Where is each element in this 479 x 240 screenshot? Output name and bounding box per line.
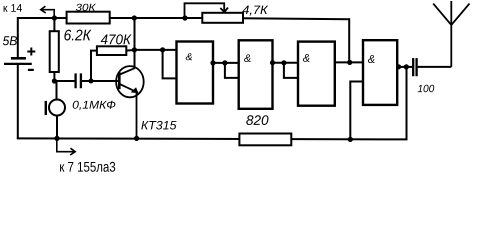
- node junction output cap branch: [404, 64, 409, 69]
- node junction bottom rail mic: [54, 136, 59, 141]
- wire antenna feed: [418, 66, 452, 68]
- node junction bottom rail emitter: [134, 136, 139, 141]
- gate U1.1 box: [177, 42, 214, 104]
- label 5V: [3, 36, 17, 45]
- label k 7 155la3: [60, 162, 115, 172]
- wire feedback 470K: [91, 50, 134, 81]
- wire 6.2K branch: [53, 18, 55, 81]
- potentiometer R4 wiper arrow: [185, 3, 229, 18]
- wire bottom rail: [17, 67, 407, 139]
- node junction gate1 input branch: [160, 47, 165, 52]
- wire base coupling: [54, 80, 118, 82]
- resistor R5 820: [239, 134, 291, 146]
- node junction collector feedback: [132, 47, 137, 52]
- resistor R1 30K: [67, 12, 110, 24]
- label 4.7K: [242, 6, 268, 16]
- battery GB1 5V plates: [4, 58, 32, 64]
- wire microphone branch: [56, 81, 59, 138]
- node junction pot rail: [182, 15, 187, 20]
- resistor R3 470K: [97, 46, 126, 55]
- label k 14: [4, 4, 22, 12]
- node junction bottom rail feedback: [348, 137, 353, 142]
- label 30K: [76, 4, 96, 11]
- label battery plus: [27, 48, 35, 56]
- node junction gate3 input branch: [281, 60, 286, 65]
- node junction gate1 output: [210, 60, 215, 65]
- capacitor C1 0.1uF: [76, 73, 81, 88]
- gate U1.2 box: [239, 40, 273, 109]
- resistor R2 6.2K: [50, 31, 59, 72]
- gate U1.4 box: [363, 40, 397, 105]
- antenna W1: [433, 1, 469, 67]
- label gate1 amp: [186, 53, 192, 60]
- node junction gate3 output: [347, 60, 352, 65]
- microphone BM1: [46, 100, 65, 116]
- wire gate1 output: [213, 63, 239, 78]
- capacitor C2 100: [413, 58, 416, 76]
- label KT315: [141, 121, 176, 130]
- wire gate1 input: [134, 50, 177, 79]
- wire collector line: [134, 18, 136, 68]
- wire gate4 output: [397, 66, 412, 68]
- gate U1.3 box: [298, 42, 335, 106]
- label battery minus: [28, 69, 34, 71]
- label 470K: [101, 34, 132, 44]
- wire gate4 lower input: [350, 82, 363, 140]
- potentiometer R4 4.7K body: [202, 13, 243, 23]
- wire gate3 output: [335, 18, 364, 62]
- node junction gate2 output: [270, 60, 275, 65]
- node junction gate4 output edge: [396, 64, 401, 69]
- node junction base wire left: [52, 78, 57, 83]
- node junction base wire right: [89, 79, 94, 84]
- label gate4 amp: [368, 55, 375, 63]
- label gate2 amp: [244, 54, 251, 62]
- label 820: [246, 115, 268, 125]
- label gate3 amp: [303, 54, 310, 62]
- label 0.1MKF: [73, 101, 116, 110]
- label 100: [418, 85, 435, 92]
- transistor VT1 KT315: [116, 66, 144, 138]
- arrow to pin 14: [41, 6, 55, 18]
- arrow to pin 7 155la3: [57, 138, 75, 155]
- node junction rail A: [52, 15, 57, 20]
- wire top supply rail: [17, 18, 349, 19]
- node junction collector rail: [132, 15, 137, 20]
- node junction gate2 input branch: [222, 60, 227, 65]
- wire gate2 output: [273, 63, 299, 78]
- label 6.2K: [64, 30, 91, 41]
- wire battery drop: [17, 17, 19, 138]
